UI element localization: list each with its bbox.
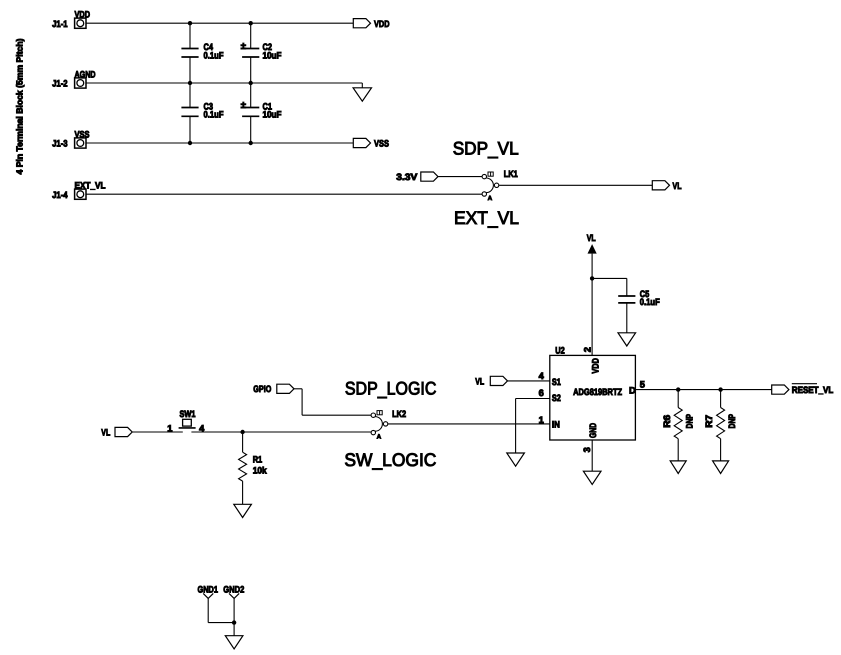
svg-text:GND: GND	[588, 423, 598, 438]
svg-text:J1-2: J1-2	[52, 79, 68, 89]
svg-text:VL: VL	[101, 427, 110, 437]
svg-text:±: ±	[241, 41, 246, 52]
svg-text:2: 2	[582, 347, 592, 352]
svg-text:LK1: LK1	[504, 169, 518, 179]
svg-text:DNP: DNP	[684, 414, 694, 429]
svg-text:IN: IN	[552, 420, 560, 430]
svg-text:4: 4	[539, 371, 545, 381]
svg-text:VSS: VSS	[374, 139, 389, 149]
svg-text:S1: S1	[552, 377, 561, 387]
svg-text:S2: S2	[552, 393, 561, 403]
svg-text:EXT_VL: EXT_VL	[75, 181, 106, 191]
svg-text:SDP_VL: SDP_VL	[453, 138, 519, 158]
svg-text:±: ±	[241, 100, 246, 111]
svg-text:D: D	[629, 385, 636, 395]
svg-text:J1-3: J1-3	[52, 139, 68, 149]
svg-text:10uF: 10uF	[263, 51, 282, 61]
svg-text:A: A	[377, 434, 382, 441]
svg-text:R7: R7	[704, 415, 714, 428]
svg-text:GND1: GND1	[198, 585, 219, 595]
svg-text:VL: VL	[475, 376, 484, 386]
svg-text:4 Pin Terminal Block (5mm Pitc: 4 Pin Terminal Block (5mm Pitch)	[15, 38, 25, 174]
svg-text:R6: R6	[662, 415, 672, 428]
svg-text:LK2: LK2	[392, 409, 406, 419]
svg-text:3: 3	[582, 447, 592, 452]
svg-text:3.3V: 3.3V	[396, 172, 418, 182]
svg-text:0.1uF: 0.1uF	[204, 109, 224, 119]
svg-text:10k: 10k	[253, 466, 268, 476]
svg-text:0.1uF: 0.1uF	[204, 51, 224, 61]
svg-text:GPIO: GPIO	[253, 384, 271, 394]
svg-text:6: 6	[539, 388, 544, 398]
svg-text:VSS: VSS	[75, 129, 90, 139]
svg-text:VL: VL	[673, 181, 682, 191]
svg-text:1: 1	[167, 423, 172, 433]
svg-text:DNP: DNP	[727, 414, 737, 429]
svg-text:SDP_LOGIC: SDP_LOGIC	[345, 379, 437, 399]
svg-text:0.1uF: 0.1uF	[640, 297, 660, 307]
svg-text:ADG819BRTZ: ADG819BRTZ	[573, 387, 622, 397]
svg-text:R1: R1	[253, 455, 263, 465]
svg-text:VL: VL	[587, 233, 596, 243]
svg-text:10uF: 10uF	[263, 109, 282, 119]
svg-text:5: 5	[640, 379, 645, 389]
svg-text:VDD: VDD	[75, 10, 91, 20]
svg-text:GND2: GND2	[223, 585, 244, 595]
svg-text:SW_LOGIC: SW_LOGIC	[344, 450, 436, 470]
svg-text:A: A	[488, 195, 493, 202]
svg-text:4: 4	[199, 423, 205, 433]
svg-text:J1-1: J1-1	[52, 19, 68, 29]
svg-text:SW1: SW1	[180, 409, 196, 419]
svg-text:EXT_VL: EXT_VL	[454, 208, 519, 228]
svg-text:J1-4: J1-4	[52, 190, 68, 200]
svg-text:U2: U2	[555, 345, 565, 355]
svg-text:VDD: VDD	[374, 19, 390, 29]
svg-text:VDD: VDD	[590, 358, 600, 374]
svg-text:AGND: AGND	[75, 69, 96, 79]
svg-text:RESET_VL: RESET_VL	[792, 385, 834, 395]
